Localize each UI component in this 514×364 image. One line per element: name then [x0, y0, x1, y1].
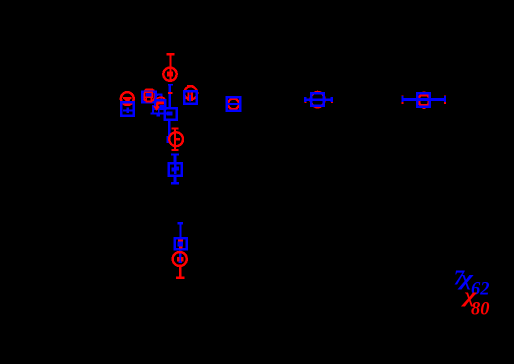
source V2 (box2 red rounded): [157, 98, 165, 109]
terminal bar: [178, 222, 184, 224]
impedance Z8 (symbol E box): [227, 97, 241, 110]
wire: [179, 224, 181, 236]
wire: [156, 110, 160, 117]
wire: [151, 112, 173, 116]
wire: [169, 53, 171, 81]
terminal bar: [172, 149, 179, 151]
voltage source V3 (symbol E): [228, 99, 239, 110]
wire: [174, 156, 177, 163]
terminal bar: [172, 127, 179, 129]
terminal bar top of chain: [167, 53, 175, 56]
impedance Z3 (box2 blue): [155, 100, 165, 110]
impedance Z2 (symbol B blue box): [142, 92, 156, 103]
voltage source V4 (symbol D1): [311, 92, 325, 107]
wire: [179, 266, 182, 277]
wire: [401, 95, 446, 104]
impedance Z10 (symbol D2 box): [417, 93, 430, 107]
current source I4: [169, 132, 183, 146]
wire: [174, 130, 176, 134]
node label chi_80: [460, 285, 489, 320]
current source I5: [173, 252, 187, 266]
wire: [156, 94, 163, 100]
voltage source V5 (symbol D2): [419, 91, 429, 108]
svg-text:80: 80: [471, 300, 490, 320]
terminal bar: [168, 92, 173, 94]
source V1 (symbol B red rounded box): [144, 89, 154, 101]
wire: [174, 146, 176, 150]
terminal bar: [171, 182, 179, 184]
terminal bar: [176, 277, 185, 280]
wire: [167, 120, 171, 144]
current source I3 (symbol C): [184, 85, 197, 101]
impedance Z5 (big central box): [165, 108, 177, 119]
current source I1: [163, 68, 176, 81]
node label 7chi_62: [454, 265, 490, 300]
wire: [150, 105, 155, 115]
impedance Z7: [175, 238, 187, 249]
wire: [304, 97, 333, 103]
impedance Z4 (symbol C box): [184, 91, 197, 104]
wire: [174, 177, 177, 182]
terminal bar: [168, 84, 173, 86]
current source I2 (symbol A circle): [121, 92, 134, 105]
impedance Z9 (symbol D1 box): [311, 93, 323, 105]
wire: [169, 85, 171, 108]
wire: [178, 249, 182, 262]
impedance Z1 (symbol A box): [121, 102, 134, 116]
arrow mark: [154, 106, 159, 110]
terminal bar: [171, 153, 179, 155]
impedance Z6: [169, 163, 182, 176]
